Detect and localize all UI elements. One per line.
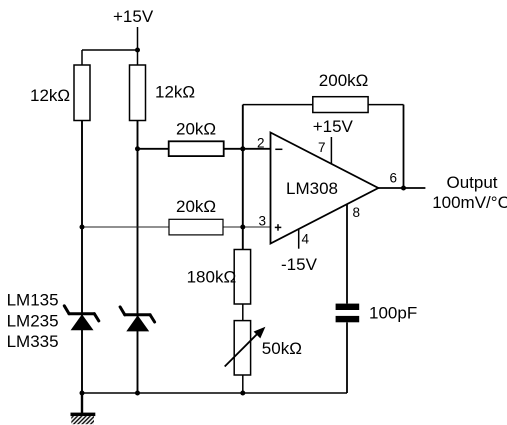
- svg-text:12kΩ: 12kΩ: [155, 83, 195, 102]
- wire inverting input row right to pin2: [224, 148, 271, 150]
- wire left rail down to ground: [81, 121, 83, 394]
- svg-text:4: 4: [302, 231, 310, 246]
- wire non-inverting row left: [82, 226, 169, 228]
- wire feedback top right: [368, 104, 403, 106]
- node supply junction: [135, 48, 140, 53]
- resistor 180k: [234, 250, 250, 305]
- resistor 20k top: [169, 141, 224, 156]
- wire feedback right drop: [403, 105, 405, 188]
- svg-text:20kΩ: 20kΩ: [176, 120, 216, 139]
- svg-text:LM308: LM308: [286, 179, 338, 198]
- wire non-inverting row right to pin3: [223, 226, 271, 228]
- svg-text:+15V: +15V: [113, 7, 154, 26]
- wire ground stem: [81, 393, 83, 413]
- wire inverting input row left: [138, 148, 169, 150]
- ground: [71, 413, 96, 425]
- node pot bottom junction: [240, 391, 245, 396]
- node ground left junction: [80, 391, 85, 396]
- wire pin7 supply stub: [330, 137, 332, 164]
- wire bottom ground bus: [82, 392, 347, 394]
- svg-text:-15V: -15V: [281, 255, 318, 274]
- svg-text:LM235: LM235: [7, 311, 59, 330]
- svg-text:7: 7: [318, 140, 326, 155]
- op-amp minus sign: [275, 148, 282, 150]
- node ground mid junction: [135, 391, 140, 396]
- node pin2 junction: [240, 146, 245, 151]
- svg-text:6: 6: [390, 170, 398, 185]
- wire output: [378, 187, 425, 189]
- svg-text:100pF: 100pF: [369, 304, 417, 323]
- wire feedback top left: [243, 104, 313, 106]
- wire +15V supply stem: [137, 27, 139, 65]
- wire 180k to pot: [242, 304, 244, 321]
- svg-text:Output: Output: [447, 173, 498, 192]
- resistor 20k bottom: [169, 219, 223, 235]
- resistor 12k right: [130, 65, 146, 121]
- node left sensor junction: [80, 225, 85, 230]
- svg-text:LM135: LM135: [7, 291, 59, 310]
- svg-text:8: 8: [353, 205, 361, 220]
- svg-text:180kΩ: 180kΩ: [187, 267, 237, 286]
- svg-text:100mV/°C: 100mV/°C: [432, 193, 507, 212]
- svg-text:50kΩ: 50kΩ: [262, 339, 302, 358]
- wire pin8 to capacitor: [346, 204, 348, 303]
- resistor 200k feedback: [313, 97, 368, 113]
- op-amp plus sign: [275, 224, 282, 231]
- wire right rail down: [137, 121, 139, 394]
- wire capacitor to bottom: [346, 322, 348, 393]
- resistor 12k left: [74, 65, 90, 121]
- node junction dots: [80, 48, 407, 396]
- svg-text:3: 3: [259, 213, 267, 228]
- potentiometer 50k: [225, 321, 266, 375]
- wire pin4 supply stub: [298, 229, 300, 249]
- svg-text:+15V: +15V: [313, 117, 354, 136]
- sensor diode right: [120, 307, 155, 322]
- wire node C vertical rail: [242, 105, 244, 250]
- svg-text:12kΩ: 12kΩ: [30, 86, 70, 105]
- wire pot to bottom: [242, 375, 244, 393]
- wire left drop to R1: [81, 50, 83, 65]
- node pin3 junction: [240, 225, 245, 230]
- svg-text:200kΩ: 200kΩ: [319, 71, 369, 90]
- node output junction: [401, 186, 406, 191]
- svg-text:20kΩ: 20kΩ: [176, 197, 216, 216]
- svg-text:LM335: LM335: [7, 332, 59, 351]
- op-amp U1 LM308: [271, 133, 379, 244]
- sensor diode LM135 left: [64, 306, 99, 321]
- capacitor 100pF: [336, 304, 360, 323]
- wire top horizontal: [82, 49, 138, 51]
- node R2 bottom junction: [135, 146, 140, 151]
- svg-text:2: 2: [257, 136, 265, 151]
